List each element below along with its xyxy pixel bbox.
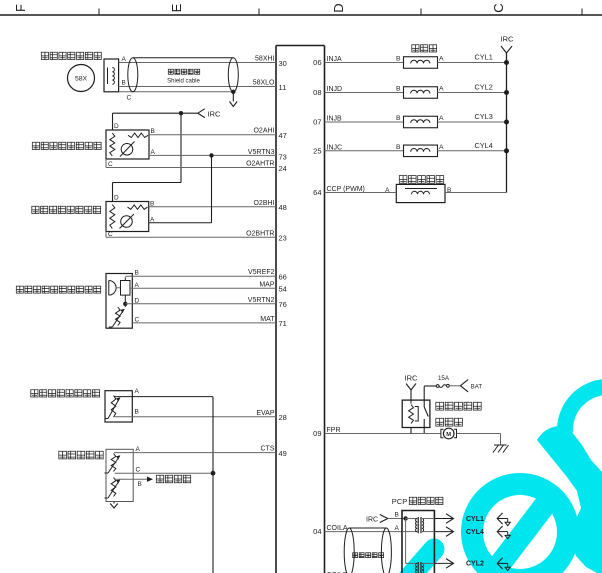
svg-text:EVAP: EVAP [256,410,274,417]
svg-text:11: 11 [279,83,287,92]
svg-text:64: 64 [313,188,321,197]
label evaporator temp sensor (Chinese) [31,390,100,397]
svg-text:CYL4: CYL4 [475,141,493,150]
top border line [0,14,602,16]
shielded cable (crank) [133,57,234,59]
label rear heated oxygen sensor (Chinese) [32,206,101,213]
wire V5RTN3 [149,154,276,156]
spark plug return CYL1 [497,513,502,524]
svg-text:C: C [127,95,132,102]
svg-text:09: 09 [313,429,321,438]
svg-text:D: D [135,297,140,304]
crank sensor 58X circle [68,65,95,92]
MAP sensor box [106,274,132,329]
label fuel pump (Chinese) [436,418,463,426]
svg-text:58XLO: 58XLO [253,80,275,87]
svg-text:B: B [396,144,401,151]
front O2 sensor box [106,130,149,159]
wire O2BHTR [105,232,107,238]
svg-text:76: 76 [279,300,287,309]
label canister solenoid valve (Chinese) [399,176,443,184]
svg-text:CYL1: CYL1 [475,53,493,62]
svg-text:IRC: IRC [208,110,222,119]
fuel pump motor M [441,429,444,437]
svg-text:Shield cable: Shield cable [167,79,200,85]
svg-text:B: B [122,79,126,86]
svg-text:PCP: PCP [392,497,407,506]
svg-text:E: E [169,3,184,12]
wire to rear O2 heater [180,113,182,182]
svg-text:INJD: INJD [327,86,343,93]
shielded cable (coil) [349,527,386,529]
svg-text:08: 08 [313,88,321,97]
wire to IRC bus [445,192,507,194]
svg-text:C: C [136,466,141,473]
svg-text:C: C [135,316,140,323]
svg-text:M: M [446,432,451,438]
wire fuse to relay switch [423,386,425,407]
injector 1 [325,62,404,64]
svg-text:A: A [439,56,444,63]
svg-text:B: B [395,512,399,519]
label intake temp/pressure sensor (Chinese) [16,286,100,293]
wire to transformer T2 [405,519,407,564]
transformer T1 [406,518,418,520]
transformer T2 (cut off) [416,563,418,573]
label crankshaft position sensor (Chinese) [41,52,101,59]
svg-text:MAP: MAP [259,281,275,288]
svg-text:MAT: MAT [260,316,275,323]
label coolant temp sensor (Chinese) [59,451,103,459]
svg-text:30: 30 [279,59,287,68]
svg-text:CYL1: CYL1 [466,516,484,523]
svg-text:O2BHI: O2BHI [253,200,274,207]
svg-text:A: A [122,56,127,63]
svg-text:V5REF2: V5REF2 [248,269,275,276]
output CYL1 [434,518,452,520]
svg-text:CCP (PWM): CCP (PWM) [327,186,365,193]
svg-text:A: A [135,282,140,289]
node BAT [460,380,468,392]
svg-text:IRC: IRC [501,35,515,44]
wire V5REF2 [125,275,276,277]
svg-text:A: A [395,525,400,532]
svg-text:CYL2: CYL2 [475,83,493,92]
label fuel pump relay (Chinese) [436,402,481,410]
svg-text:D: D [114,123,119,130]
svg-text:O2BHTR: O2BHTR [246,230,274,237]
svg-text:66: 66 [279,273,287,282]
svg-text:04: 04 [313,527,321,536]
svg-text:A: A [439,115,444,122]
svg-text:58XHI: 58XHI [255,56,275,63]
svg-text:A: A [136,446,141,453]
ECU connector block U1 [275,46,277,573]
svg-text:B: B [138,481,142,488]
shield ground drop [231,90,235,94]
svg-text:28: 28 [279,413,287,422]
svg-text:A: A [150,216,155,223]
svg-text:COILA: COILA [327,525,348,532]
crank sensor connector [104,59,119,92]
svg-text:49: 49 [279,449,287,458]
relay switch contact [424,407,428,417]
spark plug return CYL2 [497,558,502,569]
wire EVAP [115,416,277,418]
svg-text:FPR: FPR [327,427,341,434]
svg-text:B: B [396,56,401,63]
pressure element [109,281,116,296]
EVAP sensor box [105,391,132,422]
svg-text:B: B [151,128,155,135]
svg-text:INJA: INJA [327,56,343,63]
svg-text:INJC: INJC [327,144,343,151]
svg-text:D: D [114,195,119,202]
shield wire [119,91,234,93]
svg-text:25: 25 [313,146,321,155]
wire O2AHTR [105,159,107,168]
ground [113,502,115,504]
svg-text:B: B [396,115,401,122]
rear O2 sensor box [106,202,149,232]
svg-text:06: 06 [313,58,321,67]
fuel pump relay K1 [402,400,430,427]
svg-text:A: A [135,388,140,395]
svg-text:47: 47 [279,131,287,140]
svg-text:CYL4: CYL4 [466,529,484,536]
svg-text:BAT: BAT [471,385,483,391]
wire MAP [130,287,276,289]
wire 58XHI [119,62,276,64]
svg-text:V5RTN2: V5RTN2 [248,297,275,304]
label front heated oxygen sensor (Chinese) [32,142,101,149]
label to water temp gauge (Chinese) [156,475,190,482]
label injectors (Chinese) [412,45,437,52]
svg-text:C: C [491,3,506,12]
wire CTS [114,452,276,454]
svg-text:15A: 15A [438,375,450,382]
injector 2 [325,92,404,94]
svg-text:48: 48 [279,203,287,212]
junction vertical line [212,397,214,573]
svg-text:B: B [135,408,139,415]
svg-text:23: 23 [279,234,287,243]
CTS sensor box [106,449,133,501]
svg-text:A: A [439,144,444,151]
svg-text:07: 07 [313,118,321,127]
spark plug return CYL4 [497,526,502,537]
svg-text:A: A [439,86,444,93]
wire C to junction [115,472,214,474]
ignition coil box [402,511,434,573]
IRC supply bus [506,53,508,193]
wire O2BHI [149,206,276,208]
svg-text:B: B [150,200,154,207]
svg-text:A: A [151,149,156,156]
wire COILA [325,531,403,533]
wire to ground [457,433,501,435]
svg-text:24: 24 [279,164,287,173]
watermark [400,387,602,573]
svg-text:B: B [135,270,139,277]
output CYL4 [434,531,452,533]
ground (chassis) [493,445,509,453]
border tick marks [98,9,100,16]
node IRC (O2 heater supply) [112,113,114,130]
output CYL2 [434,562,452,564]
wire MAT [132,322,276,324]
svg-text:CTS: CTS [261,446,275,453]
wire B to gauge [115,478,148,480]
svg-text:B: B [396,86,401,93]
svg-text:F: F [13,4,28,12]
svg-text:58X: 58X [75,76,88,83]
wire CCP [325,192,397,194]
injector 3 [325,121,404,123]
wire FPR [325,433,442,435]
wire A to junction [114,396,213,398]
svg-text:D: D [331,3,346,12]
wire O2AHI [149,134,276,136]
canister valve box [396,184,445,202]
svg-text:O2AHI: O2AHI [253,128,274,135]
svg-text:CYL2: CYL2 [466,561,484,568]
wire to V5RTN3 [149,222,212,224]
wire V5RTN2 [125,303,276,305]
injector 4 [325,150,404,152]
svg-text:CYL3: CYL3 [475,112,493,121]
svg-text:O2AHTR: O2AHTR [246,161,274,168]
svg-text:73: 73 [279,152,287,161]
svg-text:INJB: INJB [327,116,343,123]
svg-text:IRC: IRC [366,516,378,523]
svg-text:54: 54 [279,285,287,294]
wire 58XLO [119,86,276,88]
thermistor [116,307,121,326]
svg-text:71: 71 [279,319,287,328]
svg-text:IRC: IRC [405,374,419,383]
